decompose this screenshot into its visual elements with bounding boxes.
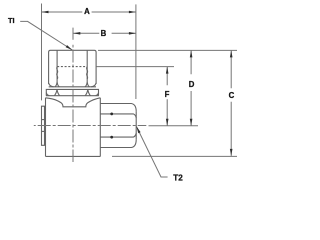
nut T1 thread runout squiggle right	[87, 67, 88, 79]
arrowhead T2 leader	[136, 126, 140, 133]
arrowhead A left	[42, 11, 49, 14]
horizontal centerline of port T2	[34, 125, 147, 127]
svg-text:B: B	[101, 29, 107, 38]
extension line centerline reference right	[149, 125, 199, 127]
extension line bottom reference	[112, 155, 237, 157]
left washer strip tick upper	[42, 119, 45, 121]
arrowhead C bottom	[230, 149, 233, 156]
dimension C line	[230, 50, 232, 155]
nut T1 bottom chamfer edge	[49, 86, 96, 88]
nut T1 hidden seat line (dashed)	[57, 66, 87, 68]
dimension A line	[42, 11, 136, 13]
svg-text:A: A	[84, 7, 90, 16]
body right edge	[99, 98, 101, 157]
leader line T2	[136, 126, 167, 177]
svg-text:T2: T2	[173, 173, 183, 182]
nut T1 chamfer arc facet-right	[85, 82, 89, 87]
nut T1 chamfer arc facet-left	[55, 82, 59, 87]
arrowhead C top	[230, 50, 233, 57]
nut T1 thread runout squiggle left	[57, 67, 58, 79]
nut T2 top line	[100, 104, 136, 112]
extension line top reference (nut top)	[98, 49, 237, 51]
nut T1 flange scallop left	[54, 90, 59, 96]
nut T1 left facet line	[56, 50, 58, 81]
body bottom edge	[46, 155, 101, 157]
nut T2 end edge	[135, 111, 137, 139]
arrowhead T1 leader	[66, 45, 73, 50]
nut T1 hex outline	[49, 50, 97, 84]
svg-text:F: F	[165, 90, 170, 99]
nut T2 facet dot lower	[110, 136, 113, 139]
extension line A B right	[135, 4, 137, 99]
nut T2 facet dot upper	[110, 113, 113, 116]
arrowhead A right	[129, 11, 136, 14]
vertical centerline of port T1 (top tick)	[72, 28, 74, 40]
nut T1 flange bottom edge	[46, 95, 99, 97]
nut T1 flange corner arc right	[96, 93, 99, 96]
dimension D line	[190, 50, 192, 125]
nut T1 right facet line	[86, 50, 88, 81]
left washer strip tick lower	[42, 130, 45, 132]
nut T1 flange sides	[46, 89, 98, 95]
arrowhead B left	[73, 32, 80, 35]
extension line seat reference	[96, 66, 174, 68]
nut T2 bottom line	[100, 140, 136, 148]
dimension B line	[73, 32, 136, 34]
arrowhead B right	[129, 32, 136, 35]
nut T2 lower facet line	[100, 133, 136, 137]
vertical centerline of port T1	[72, 45, 74, 162]
nut T1 chamfer arc outer-right	[91, 83, 96, 87]
svg-text:C: C	[229, 91, 235, 100]
dimension F line	[166, 67, 168, 126]
svg-text:TI: TI	[8, 16, 15, 25]
body saddle top profile	[46, 98, 101, 107]
nut T1 chamfer arc outer-left	[49, 83, 54, 87]
nut T1 flange corner arc left	[46, 93, 49, 96]
body left edge	[45, 98, 47, 157]
nut T1 flange scallop right	[85, 90, 90, 96]
arrowhead D bottom	[190, 119, 193, 126]
arrowhead F top	[166, 67, 169, 74]
extension line A left	[41, 4, 43, 101]
svg-text:D: D	[189, 80, 195, 89]
arrowhead F bottom	[166, 119, 169, 126]
leader line T1	[20, 21, 72, 50]
arrowhead D top	[190, 50, 193, 57]
left washer strip	[42, 106, 45, 145]
nut T2 upper facet line	[100, 114, 136, 118]
